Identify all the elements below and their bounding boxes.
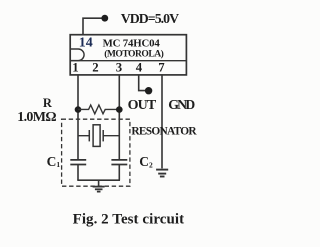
- svg-text:2: 2: [92, 60, 98, 74]
- ground symbol at resonator network: [93, 187, 105, 192]
- svg-text:14: 14: [79, 35, 93, 50]
- wire pin 3 to resonator network: [118, 75, 120, 160]
- wire pin 1 to resonator network: [77, 75, 79, 160]
- wire pin 7 to ground: [161, 75, 163, 168]
- crystal resonator X1 right lead: [103, 135, 119, 137]
- crystal resonator X1 body: [93, 125, 100, 147]
- svg-text:VDD=5.0V: VDD=5.0V: [121, 11, 179, 26]
- capacitor C2 plates: [111, 160, 127, 165]
- svg-text:OUT: OUT: [128, 98, 157, 113]
- wire VDD supply (stub from IC top, horizontal to terminal): [83, 18, 105, 35]
- node junction dot pin3-resistor: [116, 106, 123, 113]
- crystal resonator X1 left lead: [78, 135, 89, 137]
- crystal resonator X1 left plate: [88, 130, 90, 141]
- svg-text:Fig. 2 Test circuit: Fig. 2 Test circuit: [73, 211, 185, 227]
- node junction dot pin1-resistor: [75, 106, 82, 113]
- svg-text:1: 1: [72, 60, 78, 74]
- svg-text:(MOTOROLA): (MOTOROLA): [104, 49, 164, 60]
- op-amp U1 pin-row separator line: [70, 60, 186, 62]
- wire bottom rail joining C1 and C2: [77, 179, 120, 181]
- svg-text:RESONATOR: RESONATOR: [131, 126, 197, 138]
- op-amp U1 MC74HC04 package outline: [70, 35, 186, 75]
- svg-text:1.0MΩ: 1.0MΩ: [17, 110, 56, 125]
- wire pin 4 to OUT test point: [139, 75, 149, 91]
- svg-text:MC 74HC04: MC 74HC04: [103, 37, 161, 49]
- op-amp U1 package notch: [71, 49, 84, 61]
- svg-text:4: 4: [136, 60, 143, 74]
- svg-text:3: 3: [116, 60, 122, 74]
- wire capacitor C1 to bottom rail: [77, 165, 79, 181]
- svg-text:7: 7: [158, 60, 165, 74]
- svg-text:GND: GND: [168, 97, 195, 112]
- resonator dashed enclosure box: [62, 119, 130, 186]
- resistor R1 1.0 Mohm zigzag: [78, 105, 119, 114]
- capacitor C1 plates: [70, 160, 86, 165]
- wire ground stub from bottom rail: [98, 180, 100, 186]
- node OUT test point dot: [145, 87, 152, 94]
- crystal resonator X1 right plate: [102, 130, 104, 141]
- node VDD terminal dot: [101, 15, 108, 22]
- wire capacitor C2 to bottom rail: [118, 165, 120, 181]
- svg-text:R: R: [43, 96, 53, 110]
- ground symbol at pin 7: [156, 170, 168, 177]
